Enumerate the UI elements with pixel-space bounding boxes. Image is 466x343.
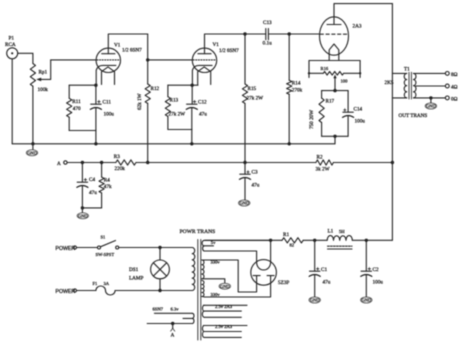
svg-text:T1: T1 <box>404 67 410 73</box>
svg-text:R11: R11 <box>72 99 81 105</box>
svg-text:R12: R12 <box>151 86 160 92</box>
svg-text:A: A <box>171 332 175 338</box>
svg-text:0Ω: 0Ω <box>451 96 458 102</box>
node <box>391 161 394 164</box>
triode V1b 1/2 6SN7 <box>192 42 239 85</box>
node R15 to B+ <box>243 161 246 164</box>
svg-text:OUT TRANS: OUT TRANS <box>399 113 428 119</box>
svg-text:330v: 330v <box>211 292 221 297</box>
winding 2.5v upper <box>202 304 247 317</box>
svg-text:47u: 47u <box>89 190 97 196</box>
wire grid V1b <box>148 59 193 61</box>
node <box>100 161 103 164</box>
transformer T1 secondary <box>413 73 416 98</box>
wire B+ riser <box>391 4 393 241</box>
wire cathode bar V1b <box>168 84 198 86</box>
svg-text:GND: GND <box>78 213 88 218</box>
ground <box>309 297 320 303</box>
svg-text:2A3: 2A3 <box>353 24 362 30</box>
resistor R13 27k 2W <box>165 85 185 129</box>
svg-text:27k 2W: 27k 2W <box>169 112 186 118</box>
resistor R4 47k <box>99 163 112 208</box>
triode V1a 1/2 6SN7 <box>96 42 142 85</box>
node <box>81 206 84 209</box>
ground <box>239 200 250 206</box>
svg-text:R13: R13 <box>170 98 179 104</box>
svg-text:GND: GND <box>362 298 372 303</box>
svg-text:V1: V1 <box>114 42 121 48</box>
wire B+ to riser <box>333 162 392 164</box>
capacitor C1 47u <box>309 240 331 296</box>
wire <box>303 239 327 241</box>
node <box>190 142 193 145</box>
wire <box>119 247 193 249</box>
transformer primary <box>192 248 195 291</box>
winding 330v lower <box>202 281 221 297</box>
terminal <box>73 289 76 292</box>
resistor R2 3k 2W <box>316 155 334 173</box>
svg-text:100u: 100u <box>373 279 384 285</box>
svg-text:100k: 100k <box>38 87 49 93</box>
svg-text:2K5: 2K5 <box>385 80 394 86</box>
svg-text:82: 82 <box>290 243 295 248</box>
svg-text:GND: GND <box>426 104 436 109</box>
svg-text:DS1: DS1 <box>129 267 139 273</box>
wire <box>245 33 266 35</box>
svg-text:GND: GND <box>220 284 230 289</box>
svg-text:C12: C12 <box>198 100 207 106</box>
node <box>333 89 336 92</box>
wire tap 0ohm <box>413 97 445 99</box>
svg-text:R3: R3 <box>114 154 120 160</box>
svg-text:GND: GND <box>27 150 37 155</box>
ground <box>425 98 436 109</box>
wire <box>77 290 96 292</box>
capacitor C3 47u <box>239 163 259 200</box>
resistor R15 27k 2W <box>242 34 263 163</box>
wire bottom bar <box>322 135 349 137</box>
svg-text:POWER: POWER <box>56 289 76 295</box>
svg-text:3k 2W: 3k 2W <box>316 167 330 173</box>
svg-text:GND: GND <box>239 201 249 206</box>
node <box>333 135 336 138</box>
svg-text:P1: P1 <box>9 36 15 42</box>
node plate V1b <box>243 32 246 35</box>
svg-text:5H: 5H <box>339 229 345 234</box>
svg-text:R4: R4 <box>104 178 110 184</box>
winding 6.3v heater <box>147 307 194 324</box>
capacitor C12 47u <box>186 85 207 129</box>
resistor R11 470 <box>67 85 82 130</box>
node <box>81 161 84 164</box>
svg-text:R1: R1 <box>283 232 289 238</box>
wire bottom bar <box>82 207 101 209</box>
svg-text:100: 100 <box>341 78 349 83</box>
svg-text:750 20W: 750 20W <box>309 110 315 129</box>
svg-text:47u: 47u <box>323 279 331 285</box>
svg-text:C13: C13 <box>263 20 272 26</box>
wire <box>32 86 34 144</box>
node <box>94 142 97 145</box>
winding 330v upper <box>202 260 221 279</box>
ground <box>219 283 230 289</box>
node <box>158 289 161 292</box>
wire network bottom bar <box>69 130 96 132</box>
wire plate V1a <box>108 34 147 54</box>
svg-text:GND: GND <box>310 298 320 303</box>
potentiometer Rp1 wiper arrow <box>36 60 51 81</box>
wire bar <box>322 90 349 92</box>
capacitor C14 100u <box>343 91 366 137</box>
svg-text:5Z3P: 5Z3P <box>278 280 289 286</box>
rectifier tube 5Z3P <box>251 260 290 286</box>
svg-text:R14: R14 <box>292 80 301 86</box>
node <box>313 239 316 242</box>
potentiometer Rp1 <box>30 64 48 94</box>
wire <box>334 136 336 144</box>
svg-text:470: 470 <box>73 106 81 112</box>
capacitor C4 47u <box>77 163 97 208</box>
wire B+ line mid <box>136 162 316 164</box>
wire plate 2A3 <box>334 4 392 25</box>
svg-text:R2: R2 <box>317 155 323 161</box>
node pot ground junction <box>31 142 34 145</box>
svg-text:C4: C4 <box>89 177 95 183</box>
wire tap 4ohm <box>416 85 445 87</box>
wire <box>77 247 98 249</box>
wire grid 2A3 <box>268 33 319 35</box>
svg-text:POWR TRANS: POWR TRANS <box>180 229 216 235</box>
svg-text:R16: R16 <box>321 66 329 71</box>
svg-text:C11: C11 <box>103 100 112 106</box>
resistor R17 750 20W <box>309 91 335 137</box>
capacitor C13 0.1u <box>263 20 272 46</box>
wire <box>95 131 97 144</box>
label POWR TRANS <box>180 229 216 235</box>
wire cathode bar V1a <box>69 84 96 86</box>
svg-text:1/2 6SN7: 1/2 6SN7 <box>122 48 142 54</box>
svg-text:5v: 5v <box>211 240 216 245</box>
svg-text:R17: R17 <box>326 99 335 105</box>
wire <box>352 239 392 241</box>
wire 330v top lead <box>202 259 205 261</box>
svg-text:100u: 100u <box>104 112 115 118</box>
svg-text:F1: F1 <box>93 281 99 286</box>
ground <box>26 144 37 156</box>
resistor R1 82 <box>282 232 303 248</box>
svg-text:LAMP: LAMP <box>129 276 144 282</box>
svg-text:27k 2W: 27k 2W <box>247 96 264 102</box>
resistor R14 270k <box>287 34 303 144</box>
svg-text:C14: C14 <box>354 107 363 113</box>
svg-text:0.1u: 0.1u <box>263 40 272 46</box>
node R12 to B+ <box>146 161 149 164</box>
lamp DS1 <box>129 248 169 291</box>
label OUT TRANS <box>399 113 428 119</box>
wire tap 8ohm <box>413 72 445 74</box>
svg-text:330v: 330v <box>211 260 221 265</box>
svg-text:C2: C2 <box>373 267 379 273</box>
wire grid V1a <box>51 59 96 61</box>
svg-text:Rp1: Rp1 <box>39 70 48 76</box>
svg-text:S1: S1 <box>101 235 107 240</box>
capacitor C2 100u <box>361 240 384 296</box>
svg-text:POWER: POWER <box>56 246 76 252</box>
node <box>269 239 272 242</box>
transformer T1 core <box>409 72 411 99</box>
svg-text:RCA: RCA <box>5 42 16 48</box>
svg-text:SW-SPST: SW-SPST <box>96 252 115 257</box>
svg-text:1/2 6SN7: 1/2 6SN7 <box>219 48 239 54</box>
svg-text:C3: C3 <box>252 170 258 176</box>
node R14 tap <box>288 32 291 35</box>
winding 5V <box>202 240 271 251</box>
transformer T1 primary <box>385 67 411 98</box>
node A heater bias <box>57 161 67 167</box>
wire plate left <box>205 260 257 292</box>
node A marker <box>171 324 175 339</box>
svg-text:2.5v 2A3: 2.5v 2A3 <box>215 324 233 329</box>
wire plate right <box>205 276 271 297</box>
svg-text:47k: 47k <box>104 184 112 190</box>
wire B+ line left <box>67 162 116 164</box>
ground <box>361 297 372 303</box>
svg-text:270k: 270k <box>292 87 303 93</box>
wire plate V1b <box>205 34 246 54</box>
svg-text:3A: 3A <box>104 281 110 286</box>
wire 330v bottom lead <box>202 296 205 299</box>
svg-text:62k 1W: 62k 1W <box>137 93 143 110</box>
terminal 4ohm <box>445 84 457 90</box>
svg-text:100u: 100u <box>355 119 366 125</box>
node cathode V1b <box>191 84 194 87</box>
svg-text:C1: C1 <box>321 267 327 273</box>
transformer core <box>198 240 201 341</box>
node <box>365 239 368 242</box>
svg-text:6SN7: 6SN7 <box>153 307 164 312</box>
svg-text:6.3v: 6.3v <box>171 307 180 312</box>
hum balance pot R16 100 <box>308 61 362 91</box>
wire ground bus <box>12 143 335 145</box>
resistor R12 62k 1W <box>137 34 160 163</box>
wire <box>11 59 13 144</box>
wire filament left to 5V <box>204 251 257 262</box>
wire center tap <box>202 279 225 283</box>
ground <box>77 208 88 219</box>
svg-text:A: A <box>57 161 61 167</box>
svg-text:8Ω: 8Ω <box>451 72 458 78</box>
wire primary stubs <box>392 73 406 98</box>
terminal 0ohm <box>445 96 457 102</box>
switch S1 SW-SPST <box>96 235 119 258</box>
power triode 2A3 <box>320 17 362 61</box>
node <box>158 246 161 249</box>
svg-text:47u: 47u <box>199 112 207 118</box>
wire <box>115 290 192 292</box>
node <box>429 96 432 99</box>
svg-text:2.5v 2A3: 2.5v 2A3 <box>215 304 233 309</box>
choke L1 5H <box>327 228 352 249</box>
svg-text:L1: L1 <box>328 228 334 234</box>
svg-text:220k: 220k <box>115 166 126 172</box>
svg-text:4Ω: 4Ω <box>451 85 458 91</box>
wire network bottom bar <box>168 129 192 131</box>
resistor R3 220k <box>114 154 136 172</box>
wire filament right to B+ <box>270 240 272 262</box>
node A tap <box>171 322 174 325</box>
capacitor C11 100u <box>90 85 114 130</box>
terminal 8ohm <box>445 72 457 78</box>
node <box>288 142 291 145</box>
wire PSU B+ line <box>205 239 282 241</box>
label POWER top <box>56 246 76 252</box>
fuse F1 3A <box>93 281 116 295</box>
input jack P1 RCA <box>5 36 18 59</box>
node cathode V1a <box>94 84 97 87</box>
wire <box>18 53 33 63</box>
svg-text:R15: R15 <box>248 86 257 92</box>
svg-text:47u: 47u <box>252 183 260 189</box>
winding 2.5v lower <box>202 324 247 337</box>
label POWER bottom <box>56 289 76 295</box>
terminal <box>73 246 76 249</box>
node grid V1b tap <box>146 58 149 61</box>
wire <box>191 130 193 144</box>
